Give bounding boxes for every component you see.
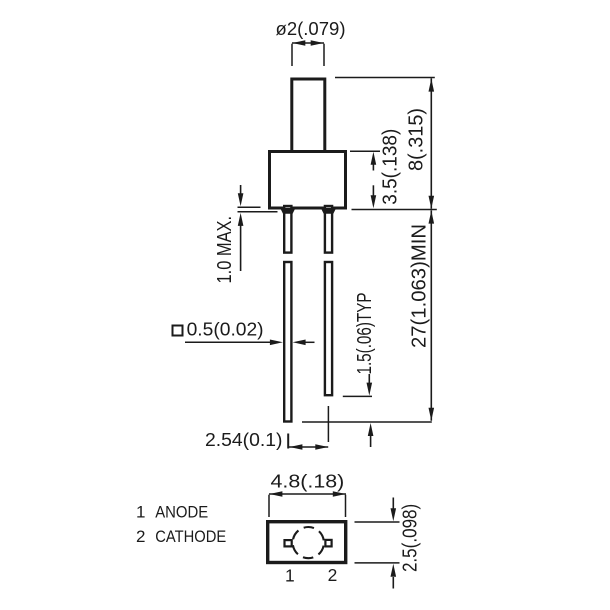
bottom seating reference line bbox=[302, 421, 432, 423]
dimension 1.0 MAX.: upper tick bbox=[238, 206, 261, 208]
lead 1 shoulder fillet bbox=[280, 208, 296, 214]
dimension line 8(.315) bbox=[430, 78, 432, 209]
svg-text:0.5(0.02): 0.5(0.02) bbox=[187, 319, 264, 340]
svg-text:4.8(.18): 4.8(.18) bbox=[271, 471, 345, 492]
square symbol of 0.5 dim bbox=[173, 326, 183, 336]
svg-text:8(.315): 8(.315) bbox=[406, 108, 428, 171]
lead 2 shoulder fillet bbox=[321, 208, 337, 214]
dimension line for diameter 2 bbox=[292, 42, 324, 44]
down arrow 1.5 dim bbox=[368, 374, 370, 384]
lead 1 lower segment bbox=[284, 262, 291, 422]
opposing arrow 0.5 bbox=[303, 341, 315, 343]
LED body flange bbox=[270, 152, 346, 209]
extension line package top right bbox=[355, 521, 400, 523]
dimension line 2.54 bbox=[289, 446, 328, 448]
extension line at lead 2 tip bbox=[343, 395, 372, 397]
svg-text:1.0 MAX.: 1.0 MAX. bbox=[213, 216, 236, 284]
up arrow 1.5 dim bbox=[370, 436, 372, 447]
dimension line 4.8 bbox=[269, 493, 346, 495]
svg-text:27(1.063)MIN: 27(1.063)MIN bbox=[409, 224, 431, 348]
package outline (bottom view) bbox=[268, 522, 346, 563]
dimension 1.0 MAX.: lower tick bbox=[238, 211, 278, 213]
extension line from body top right bbox=[350, 150, 380, 152]
svg-text:2.54(0.1): 2.54(0.1) bbox=[205, 429, 283, 450]
extension line package bottom right bbox=[355, 562, 400, 564]
svg-text:1: 1 bbox=[136, 503, 145, 522]
dimension line 27(1.063)MIN bbox=[430, 210, 432, 420]
svg-text:2: 2 bbox=[136, 527, 145, 546]
svg-text:ø2(.079): ø2(.079) bbox=[276, 18, 346, 39]
svg-text:CATHODE: CATHODE bbox=[155, 527, 226, 546]
cathode tab square bbox=[325, 540, 331, 547]
lead 2 upper segment (cathode, right) bbox=[325, 206, 332, 253]
LED dome (epoxy cylinder, side view) bbox=[292, 79, 325, 152]
up arrow 2.5 dim bbox=[392, 577, 394, 589]
svg-text:2: 2 bbox=[328, 565, 338, 585]
dimension 1.0 MAX.: down arrow bbox=[240, 185, 242, 196]
extension line from body bottom right bbox=[352, 209, 437, 211]
leader line 0.5 with arrow to lead edge bbox=[185, 341, 272, 343]
svg-text:1.5(.06)TYP: 1.5(.06)TYP bbox=[354, 293, 376, 375]
down arrow 2.5 dim bbox=[392, 498, 394, 510]
dashed die circle bbox=[293, 527, 324, 558]
tick at lead 1 center bbox=[287, 434, 289, 449]
dimension line 3.5(.138), broken, arrows at ends bbox=[372, 158, 374, 171]
svg-text:3.5(.138): 3.5(.138) bbox=[379, 129, 401, 205]
extension line below lead 2 bbox=[327, 406, 329, 442]
dimension 1.0 MAX.: up arrow bbox=[240, 224, 242, 271]
svg-text:ANODE: ANODE bbox=[155, 503, 208, 522]
lead 1 upper segment (anode, left) bbox=[284, 206, 291, 253]
svg-text:2.5(.098): 2.5(.098) bbox=[400, 504, 422, 572]
anode tab square bbox=[285, 540, 292, 546]
svg-text:1: 1 bbox=[285, 566, 295, 586]
lead 2 lower segment bbox=[325, 262, 332, 395]
extension line from dome top bbox=[335, 77, 435, 79]
